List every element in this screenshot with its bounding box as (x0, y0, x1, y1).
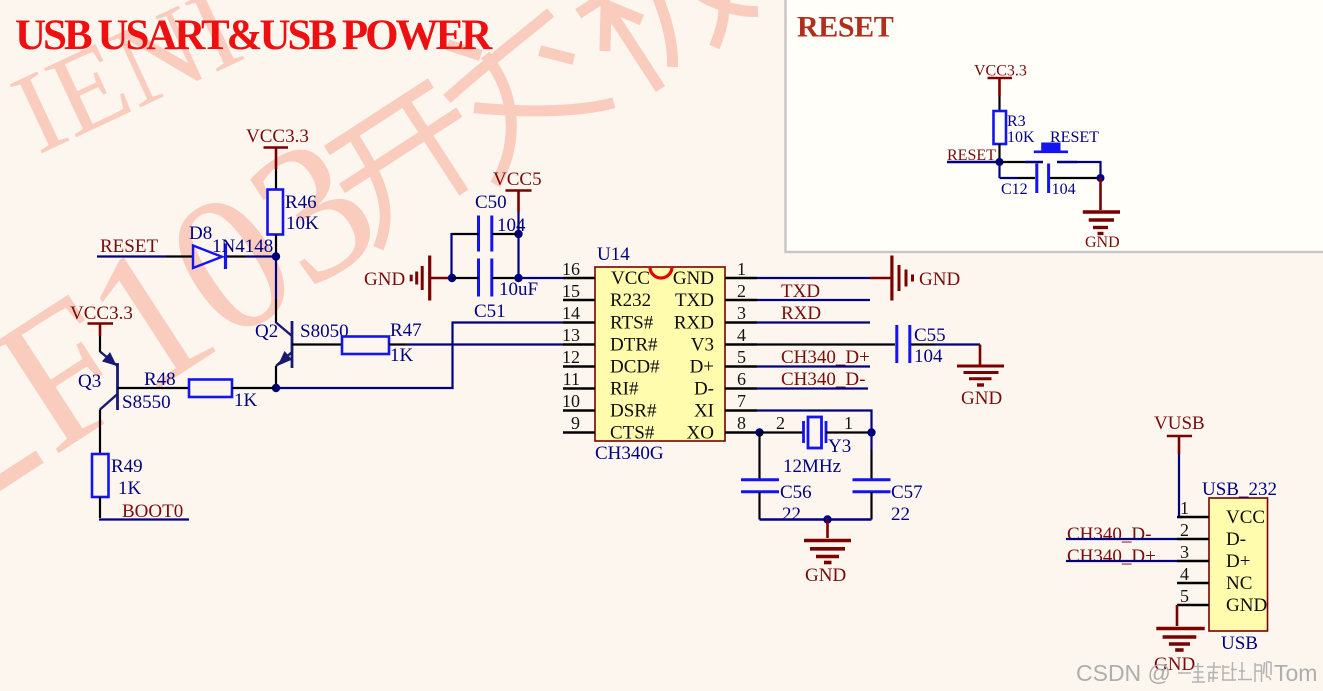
svg-text:C51: C51 (474, 301, 506, 322)
pin 5 D+ (690, 347, 757, 378)
node E junction (514, 274, 522, 282)
svg-text:USB_232: USB_232 (1202, 479, 1277, 500)
svg-text:22: 22 (782, 504, 801, 525)
pin 10 DSR# (562, 391, 657, 422)
svg-text:2: 2 (1180, 520, 1189, 540)
wire CH340_D+ (757, 365, 870, 367)
wire RESET stub (947, 161, 999, 163)
wire VUSB to pin 1 (1179, 454, 1183, 517)
svg-text:R232: R232 (610, 290, 651, 311)
svg-text:S8550: S8550 (122, 392, 171, 413)
wire diode anode (166, 255, 193, 257)
wire CH340_D+ to pin 3 (1066, 560, 1177, 562)
resistor R47 (342, 320, 422, 366)
svg-text:1: 1 (1180, 498, 1189, 518)
ground GND (reset) (1083, 178, 1120, 251)
wire R46 to node (275, 235, 277, 257)
wire node J down (998, 162, 1000, 178)
svg-text:Q2: Q2 (255, 321, 278, 342)
svg-text:8: 8 (737, 413, 746, 433)
svg-text:RTS#: RTS# (610, 313, 654, 334)
svg-text:1N4148: 1N4148 (212, 236, 273, 257)
svg-text:DSR#: DSR# (610, 401, 657, 422)
svg-text:RXD: RXD (674, 313, 714, 334)
svg-text:10K: 10K (286, 213, 319, 234)
svg-text:4: 4 (1180, 564, 1189, 584)
pin 14 RTS# (562, 303, 654, 334)
svg-text:R3: R3 (1007, 113, 1026, 130)
watermark char 开 (318, 79, 497, 249)
capacitor C50 (475, 192, 526, 252)
svg-text:CH340_D+: CH340_D+ (1067, 546, 1156, 567)
svg-text:2: 2 (776, 413, 785, 433)
svg-text:C56: C56 (780, 482, 812, 503)
IC U14 CH340G body (595, 244, 725, 464)
wire C12 left (1000, 177, 1019, 179)
wire button to node K (1077, 162, 1101, 178)
wire TXD (757, 299, 870, 301)
svg-text:Tom: Tom (1274, 660, 1317, 686)
svg-text:3: 3 (737, 303, 746, 323)
wire VCC3.3 to R46 (275, 169, 277, 190)
svg-text:RXD: RXD (781, 303, 821, 324)
pin 2 TXD (675, 281, 757, 311)
wire C50 right (492, 233, 519, 235)
svg-text:13: 13 (562, 325, 580, 345)
node F junction (755, 428, 763, 436)
watermark char 发 (417, 0, 616, 184)
wire R49 to BOOT0 (99, 497, 101, 518)
node G junction (867, 428, 875, 436)
wire bottom rail (760, 518, 872, 521)
diode D8 (189, 223, 273, 269)
svg-text:5: 5 (1180, 586, 1189, 606)
svg-text:C57: C57 (891, 482, 923, 503)
svg-text:R46: R46 (285, 192, 317, 213)
svg-text:TXD: TXD (675, 290, 714, 311)
svg-text:VCC: VCC (611, 268, 650, 289)
svg-text:GND: GND (919, 269, 960, 290)
switch RESET button (1025, 129, 1099, 162)
wire RXD (757, 321, 870, 323)
svg-text:GND: GND (364, 269, 405, 290)
wire XI to crystal right (757, 411, 872, 451)
svg-text:3: 3 (1180, 542, 1189, 562)
svg-text:C55: C55 (914, 325, 946, 346)
svg-text:104: 104 (1052, 181, 1076, 198)
power VCC3.3 (left) (70, 303, 133, 336)
svg-text:14: 14 (562, 303, 580, 323)
svg-text:2: 2 (737, 281, 746, 301)
pin Q2 emitter (275, 366, 277, 388)
svg-text:Q3: Q3 (78, 371, 101, 392)
ground GND (usb) (1154, 605, 1205, 675)
svg-text:12: 12 (562, 347, 580, 367)
node A junction (272, 252, 280, 260)
svg-text:11: 11 (563, 369, 580, 389)
svg-text:XO: XO (687, 423, 714, 444)
svg-text:GND: GND (961, 388, 1002, 409)
wire V3 to C55 (757, 343, 895, 345)
wire cathode to node A (245, 255, 276, 257)
capacitor C57 (853, 480, 923, 525)
pin 12 DCD# (562, 347, 660, 378)
pin 4 V3 (691, 325, 757, 356)
wire C12 right (1050, 177, 1101, 179)
pin 13 DTR# (562, 325, 658, 356)
pin 16 VCC (562, 259, 650, 289)
ground GND (C55) (957, 345, 1004, 410)
pin 9 CTS# (563, 413, 655, 444)
pin 1 VCC (1177, 498, 1265, 528)
pin Q3 base (118, 387, 190, 389)
ground GND (left of C51) (364, 256, 448, 301)
svg-text:D-: D- (1226, 529, 1246, 550)
svg-text:7: 7 (737, 391, 746, 411)
power VUSB (1154, 413, 1205, 454)
node J junction (996, 158, 1004, 166)
svg-text:5: 5 (737, 347, 746, 367)
node D junction (448, 274, 456, 282)
svg-text:CSDN @: CSDN @ (1076, 660, 1171, 686)
resistor R48 (144, 369, 258, 411)
wire crystal right (826, 431, 872, 433)
svg-text:1: 1 (844, 413, 853, 433)
crystal Y3 (776, 413, 853, 477)
node C junction (514, 230, 522, 238)
svg-text:GND: GND (805, 565, 846, 586)
resistor R46 (268, 190, 320, 235)
wire node B to RTS riser (276, 323, 563, 389)
capacitor C56 (741, 480, 812, 525)
power VCC3.3 (reset) (974, 63, 1027, 97)
wire C55 to GND corner (911, 343, 935, 345)
svg-text:D+: D+ (1226, 551, 1250, 572)
pin 3 RXD (674, 303, 757, 334)
pin 2 D- (1177, 520, 1246, 550)
pin 8 XO (687, 413, 760, 444)
wire diode cathode (227, 255, 245, 257)
svg-text:GND: GND (1085, 234, 1120, 251)
transistor Q2 (255, 321, 349, 368)
pin Q3 collector (99, 410, 101, 455)
svg-text:CH340G: CH340G (595, 443, 664, 464)
svg-text:CH340_D+: CH340_D+ (781, 347, 870, 368)
pin 15 R232 (562, 281, 651, 311)
svg-text:C12: C12 (1001, 181, 1028, 198)
power VCC5 (493, 169, 542, 212)
svg-text:CTS#: CTS# (610, 423, 655, 444)
svg-text:RESET: RESET (100, 236, 158, 257)
wire CH340_D- to pin 2 (1066, 538, 1177, 540)
wire R47 to pin 13 (389, 343, 407, 345)
wire CH340_D- (757, 387, 868, 389)
pin 3 D+ (1177, 542, 1250, 572)
svg-text:VUSB: VUSB (1154, 413, 1205, 434)
resistor R49 (92, 454, 143, 499)
connector USB_232 body (1202, 479, 1277, 654)
capacitor C55 (897, 325, 946, 367)
svg-text:1K: 1K (234, 390, 258, 411)
svg-text:GND: GND (1226, 595, 1267, 616)
svg-text:104: 104 (497, 215, 526, 236)
wire C50 left corner (452, 233, 479, 235)
svg-text:R48: R48 (144, 369, 176, 390)
wire RESET net (97, 255, 166, 257)
node B junction (272, 384, 280, 392)
ground GND (pin 1) (870, 256, 960, 301)
power VCC3.3 (top) (246, 126, 309, 169)
wire corner riser (450, 233, 452, 278)
svg-text:6: 6 (737, 369, 746, 389)
svg-text:USB: USB (1221, 633, 1258, 654)
wire node E to pin 16 (519, 277, 564, 279)
svg-text:R47: R47 (390, 320, 422, 341)
svg-text:D8: D8 (189, 223, 212, 244)
svg-text:1: 1 (737, 259, 746, 279)
wire C57 to bottom (870, 492, 872, 520)
svg-text:TXD: TXD (781, 281, 820, 302)
svg-text:104: 104 (914, 346, 943, 367)
resistor R3 (994, 111, 1036, 146)
svg-text:D-: D- (694, 379, 714, 400)
svg-text:XI: XI (694, 401, 714, 422)
pin 5 GND (1177, 586, 1267, 616)
pin 7 XI (694, 391, 757, 422)
wire R3 to node J (998, 144, 1000, 162)
svg-text:10: 10 (562, 391, 580, 411)
wire node G to C57 (870, 450, 872, 479)
svg-text:4: 4 (737, 325, 746, 345)
svg-text:VCC5: VCC5 (493, 169, 542, 190)
node H junction (823, 515, 831, 523)
svg-text:VCC3.3: VCC3.3 (246, 126, 309, 147)
svg-text:D+: D+ (690, 357, 714, 378)
svg-text:C50: C50 (475, 192, 507, 213)
svg-text:15: 15 (562, 281, 580, 301)
reset sub-sheet panel (786, 0, 1323, 252)
pin 4 NC (1177, 564, 1252, 594)
svg-text:USB USART&USB POWER: USB USART&USB POWER (15, 12, 493, 59)
pin 11 RI# (563, 369, 639, 400)
svg-text:12MHz: 12MHz (783, 456, 841, 477)
svg-text:Y3: Y3 (828, 436, 851, 457)
wire node F to C56 (758, 433, 760, 480)
wire node A to Q2 collector (275, 257, 277, 300)
svg-text:10K: 10K (1007, 129, 1035, 146)
wire pin1 to GND (757, 277, 870, 279)
svg-text:R49: R49 (111, 456, 143, 477)
svg-text:VCC3.3: VCC3.3 (70, 303, 133, 324)
capacitor C12 (1001, 164, 1076, 199)
wire R48 to node B (232, 387, 276, 389)
wire VCC5 to node C (517, 212, 519, 234)
svg-text:16: 16 (562, 259, 580, 279)
pin 6 D- (694, 369, 757, 400)
pin 1 GND (673, 259, 757, 289)
svg-text:1K: 1K (118, 478, 142, 499)
svg-text:VCC: VCC (1226, 507, 1265, 528)
svg-text:RI#: RI# (610, 379, 639, 400)
wire VCC3.3 to R3 (998, 96, 1000, 111)
svg-text:U14: U14 (597, 244, 630, 265)
svg-text:CH340_D-: CH340_D- (781, 369, 865, 390)
svg-text:DTR#: DTR# (610, 335, 658, 356)
ground GND (crystal) (804, 520, 851, 587)
wire node C to node E (517, 234, 519, 278)
svg-text:NC: NC (1226, 573, 1252, 594)
wire C51 right (492, 277, 519, 279)
wire C51 left (452, 277, 479, 279)
node K junction (1097, 174, 1105, 182)
svg-text:CH340_D-: CH340_D- (1067, 524, 1151, 545)
svg-text:1K: 1K (390, 345, 414, 366)
capacitor C51 (474, 259, 538, 323)
svg-text:22: 22 (891, 504, 910, 525)
svg-text:V3: V3 (691, 335, 714, 356)
watermark char 板 (555, 0, 764, 104)
svg-text:9: 9 (571, 413, 580, 433)
wire XO to crystal left (760, 431, 804, 433)
svg-text:RESET: RESET (797, 11, 894, 44)
wire node J to button (1000, 161, 1026, 163)
svg-text:RESET: RESET (1050, 129, 1099, 146)
pin Q3 emitter (99, 336, 101, 352)
transistor Q3 (78, 352, 171, 414)
pin Q2 base (292, 343, 342, 345)
svg-text:GND: GND (673, 268, 714, 289)
svg-text:BOOT0: BOOT0 (122, 501, 183, 522)
svg-text:DCD#: DCD# (610, 357, 660, 378)
pin Q2 collector (275, 299, 277, 323)
wire C56 to bottom (758, 492, 760, 520)
